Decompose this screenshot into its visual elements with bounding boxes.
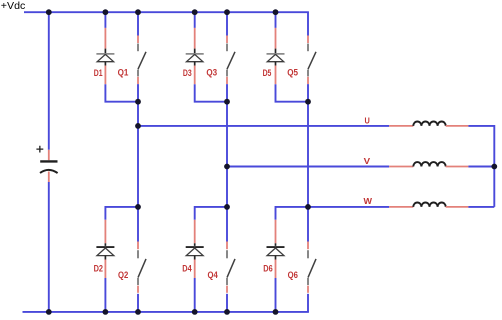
diode D4 xyxy=(186,220,204,278)
label D1 xyxy=(94,68,103,78)
wire capacitor branch top xyxy=(48,12,50,150)
svg-text:D3: D3 xyxy=(183,68,192,78)
inductor phase V xyxy=(389,162,468,166)
wire D5 branch top xyxy=(275,12,277,28)
label W xyxy=(364,197,373,206)
node top rail Q1 xyxy=(135,9,141,15)
node bottom rail D6 xyxy=(273,309,279,315)
svg-text:D5: D5 xyxy=(263,68,272,78)
switch Q2 xyxy=(138,242,146,312)
wire D4 branch bottom xyxy=(194,278,196,312)
wire top rail xyxy=(24,11,309,13)
wire D6 branch top xyxy=(276,207,309,220)
wire D5 to node xyxy=(276,84,309,102)
node neutral V junction xyxy=(491,164,497,170)
wire bottom rail xyxy=(23,311,309,313)
wire U to neutral xyxy=(468,125,494,127)
svg-text:D1: D1 xyxy=(94,68,103,78)
svg-text:D2: D2 xyxy=(94,263,103,273)
label Q3 xyxy=(206,67,217,77)
wire Q3 leg down xyxy=(226,84,228,241)
inductor phase U xyxy=(389,122,468,126)
wire D2 branch top xyxy=(105,207,138,220)
svg-text:Q3: Q3 xyxy=(206,67,217,77)
label D4 xyxy=(182,263,191,273)
node D5-Q5 junction xyxy=(305,99,311,105)
wire D3 to node xyxy=(195,84,227,102)
wire D4 branch top xyxy=(195,207,227,220)
node D1-Q1 junction xyxy=(135,99,141,105)
diode D2 xyxy=(96,220,114,278)
switch Q1 xyxy=(138,12,146,84)
wire W to neutral xyxy=(468,206,494,208)
wire capacitor branch bottom xyxy=(48,182,50,312)
node bottom rail Q2 xyxy=(135,309,141,315)
wire D1 to node xyxy=(105,84,138,102)
label D3 xyxy=(183,68,192,78)
node phase U tap xyxy=(135,123,141,129)
capacitor C1 polarity mark xyxy=(36,146,43,153)
switch Q3 xyxy=(227,12,235,84)
wire neutral vertical xyxy=(493,125,495,207)
diode D6 xyxy=(267,220,285,278)
label D5 xyxy=(263,68,272,78)
node D4 junction xyxy=(224,204,230,210)
label D6 xyxy=(263,263,272,273)
svg-text:Q5: Q5 xyxy=(287,67,298,77)
label Q2 xyxy=(118,270,128,280)
node top rail D3 xyxy=(192,9,198,15)
svg-text:U: U xyxy=(365,117,371,126)
capacitor C1 xyxy=(40,150,58,182)
node bottom rail C1 xyxy=(46,309,52,315)
wire D1 branch top xyxy=(104,12,106,28)
svg-text:D6: D6 xyxy=(263,263,272,273)
svg-text:W: W xyxy=(364,197,373,206)
wire phase V xyxy=(227,166,389,168)
svg-text:Q4: Q4 xyxy=(208,270,218,280)
svg-text:V: V xyxy=(364,157,371,166)
svg-text:Q2: Q2 xyxy=(118,270,128,280)
node bottom rail D4 xyxy=(192,309,198,315)
wire D2 branch bottom xyxy=(104,278,106,312)
svg-text:Q6: Q6 xyxy=(288,270,298,280)
wire Q5 leg down xyxy=(307,84,309,241)
label Q6 xyxy=(288,270,298,280)
diode D3 xyxy=(186,28,204,84)
wire phase W xyxy=(308,206,389,208)
wire Q1 leg down xyxy=(137,84,139,241)
wire D6 branch bottom xyxy=(275,278,277,312)
label +Vdc xyxy=(1,1,26,12)
node D2 junction xyxy=(135,204,141,210)
svg-text:Q1: Q1 xyxy=(118,67,129,77)
label Q4 xyxy=(208,270,218,280)
switch Q4 xyxy=(227,242,235,312)
svg-text:D4: D4 xyxy=(182,263,191,273)
label Q5 xyxy=(287,67,298,77)
inductor phase W xyxy=(389,203,468,207)
node D3-Q3 junction xyxy=(224,99,230,105)
node top rail D1 xyxy=(103,9,109,15)
diode D5 xyxy=(267,28,285,84)
node phase V tap xyxy=(224,164,230,170)
node top rail Q3 xyxy=(224,9,230,15)
diode D1 xyxy=(96,28,114,84)
node phase W tap xyxy=(305,204,311,210)
node top rail D5 xyxy=(273,9,279,15)
switch Q6 xyxy=(308,242,316,312)
wire V to neutral xyxy=(468,166,494,168)
wire phase U xyxy=(138,125,389,127)
node bottom rail D2 xyxy=(103,309,109,315)
label Q1 xyxy=(118,67,129,77)
label D2 xyxy=(94,263,103,273)
node top rail C1 xyxy=(46,9,52,15)
wire D3 branch top xyxy=(194,12,196,28)
svg-text:+Vdc: +Vdc xyxy=(1,1,26,12)
switch Q5 xyxy=(308,12,316,84)
label V xyxy=(364,157,371,166)
node bottom rail Q4 xyxy=(224,309,230,315)
label U xyxy=(365,117,371,126)
